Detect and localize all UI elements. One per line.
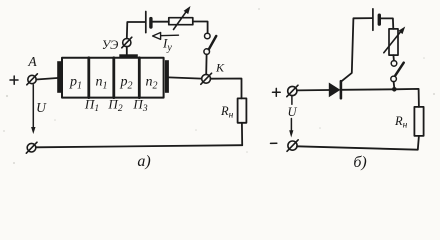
control electrode УЭ terminal bbox=[122, 37, 132, 48]
switch (gate circuit a) bbox=[204, 33, 216, 54]
anode electrode bar bbox=[57, 61, 61, 93]
junction П3 divider bbox=[138, 58, 141, 98]
anode terminal (circuit b) bbox=[287, 85, 298, 97]
resistor Rн (circuit a) bbox=[238, 98, 247, 122]
svg-text:Iу: Iу bbox=[162, 36, 172, 54]
cathode electrode bar bbox=[165, 60, 169, 93]
svg-text:U: U bbox=[287, 105, 297, 119]
wire УЭ terminal up to gate battery bbox=[127, 22, 145, 39]
thyristor cathode bar bbox=[340, 81, 343, 98]
svg-text:n1: n1 bbox=[96, 75, 108, 92]
wire junction to load resistor (circuit b) bbox=[394, 89, 419, 107]
voltage arrow U (circuit b) bbox=[289, 96, 293, 138]
wire rheostat to switch bbox=[193, 22, 208, 34]
wire Rн to bottom rail (circuit b) bbox=[297, 136, 419, 150]
wire rheostat to switch (circuit b) bbox=[392, 55, 395, 61]
junction П1 divider bbox=[87, 58, 90, 98]
resistor Rн (circuit b) bbox=[414, 107, 423, 136]
svg-text:p1: p1 bbox=[69, 75, 82, 92]
svg-text:Rн: Rн bbox=[394, 114, 408, 131]
junction node (circuit b) bbox=[392, 87, 397, 92]
thyristor gate wire up to battery bbox=[341, 18, 372, 81]
rheostat (circuit b) bbox=[384, 27, 405, 56]
wire K to load resistor bbox=[211, 79, 242, 99]
voltage arrow U (circuit a) bbox=[31, 85, 35, 134]
wire thyristor cathode to junction bbox=[341, 88, 394, 91]
gate contact tab bbox=[119, 54, 138, 58]
junction П2 divider bbox=[112, 58, 115, 98]
wire A to structure bbox=[36, 78, 57, 80]
current arrow Iу bbox=[153, 33, 179, 40]
svg-text:p2: p2 bbox=[120, 75, 133, 92]
plus polarity (circuit b) bbox=[273, 88, 281, 96]
switch (circuit b) bbox=[391, 61, 404, 82]
svg-text:A: A bbox=[27, 54, 37, 69]
scan speckles (faint) bbox=[3, 8, 435, 164]
plus polarity (circuit a) bbox=[10, 76, 18, 84]
bottom rail wire (circuit a) bbox=[36, 145, 242, 147]
rheostat (variable resistor, gate circuit a) bbox=[169, 6, 193, 30]
svg-text:U: U bbox=[36, 100, 47, 115]
svg-text:K: K bbox=[215, 61, 225, 75]
four-layer p-n-p-n structure body bbox=[62, 58, 164, 98]
node A terminal bbox=[27, 74, 38, 85]
bottom terminal (circuit b) bbox=[287, 140, 298, 152]
wire gate tab to УЭ terminal bbox=[126, 47, 128, 55]
wire structure to node K bbox=[169, 77, 202, 78]
wire Rн to bottom rail bbox=[241, 123, 243, 145]
bottom terminal (circuit a) bbox=[26, 142, 37, 153]
minus polarity (circuit b) bbox=[271, 142, 277, 144]
wire anode terminal to thyristor bbox=[297, 89, 329, 91]
svg-text:П1: П1 bbox=[84, 97, 99, 115]
wire switch down to node K bbox=[205, 55, 207, 75]
battery GB (circuit b) bbox=[373, 9, 379, 31]
svg-text:УЭ: УЭ bbox=[102, 38, 119, 52]
wire battery to rheostat bbox=[153, 21, 169, 23]
svg-text:б): б) bbox=[353, 154, 366, 171]
svg-text:а): а) bbox=[137, 153, 150, 170]
wire switch to junction bbox=[393, 82, 396, 88]
svg-text:n2: n2 bbox=[146, 75, 158, 92]
svg-text:П3: П3 bbox=[132, 97, 147, 115]
node K terminal bbox=[201, 73, 212, 84]
svg-text:Rн: Rн bbox=[220, 104, 234, 121]
wire battery to rheostat (circuit b) bbox=[381, 18, 393, 29]
battery GB (gate circuit a) bbox=[146, 12, 151, 33]
thyristor VS anode triangle bbox=[329, 83, 341, 98]
svg-text:П2: П2 bbox=[107, 97, 122, 115]
